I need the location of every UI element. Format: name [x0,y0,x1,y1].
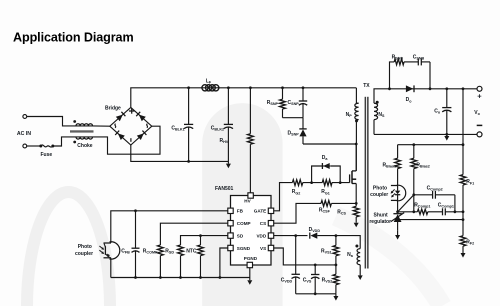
AC input terminal (top) [23,115,27,119]
R_CSF label [319,208,331,214]
wire AC top to choke [27,117,76,126]
capacitor C_BLK2 [224,86,233,161]
inductor L_F [202,85,219,91]
svg-text:TX: TX [363,83,370,89]
bridge ~ mark right [146,124,149,128]
ground arrow at R_F2 [461,246,466,258]
wire bridge top vertex to HV rail [131,88,356,108]
resistor R_Bias1 [395,145,401,186]
R_F1 label [466,179,474,185]
pin FB [228,208,244,214]
resistor R_G2 [292,180,302,186]
capacitor C_FB [132,209,140,278]
svg-text:VS: VS [260,246,266,251]
resistor R_G1 [322,180,332,186]
AC IN label [17,131,31,137]
wire VDD box bottom rail [296,293,336,295]
R_Bias1 label [383,162,396,168]
Photo coupler label (right) [370,186,388,199]
svg-text:PGND: PGND [244,256,258,261]
capacitor C_VDD [292,234,300,294]
diode D_SNP [299,118,306,144]
pin GATE [254,208,274,214]
wire bridge bottom vertex to negative rail [131,145,229,161]
resistor R_CSF [321,201,331,207]
R_SNP label [267,100,279,106]
wire fuse to choke bottom [53,137,76,146]
wire D_VDD to aux node [317,234,360,248]
Bridge label [105,106,121,112]
svg-text:Application Diagram: Application Diagram [13,31,134,45]
wire SD pin left [181,236,228,245]
resistor R_Bias2 [411,145,417,195]
wire photo transistor emitter to SGND rail [110,258,112,278]
Fuse label [41,152,53,158]
watermark: bottom-right swoosh [336,216,442,306]
bias line [398,143,463,146]
R_VS1 label [321,248,332,254]
svg-text:AC IN: AC IN [17,131,31,137]
svg-text:GATE: GATE [254,209,266,214]
R_G2 label [292,189,301,195]
bridge diode D2 (right-top edge) [136,112,146,121]
MOSFET Q1 [350,144,357,203]
watermark: center arch [202,103,282,306]
svg-text:Choke: Choke [77,143,93,149]
wire R_G1 to gate [332,181,350,184]
capacitor C_SNB [404,58,430,65]
wire GATE pin to gate line [274,183,293,211]
svg-text:Shunt: Shunt [374,213,388,219]
svg-text:HV: HV [244,199,251,204]
resistor R_COMP [158,245,164,279]
N_P label [346,112,353,118]
capacitor C_o [442,87,451,134]
bridge diode D3 (bottom-left edge) [115,131,125,140]
capacitor C_SNP [299,86,307,117]
secondary bottom rail [374,133,477,136]
Shunt regulator label [369,213,391,225]
svg-text:coupler: coupler [75,251,93,257]
pin COMP [228,221,251,227]
C_SNB label [413,54,425,60]
svg-text:VDD: VDD [256,234,266,239]
svg-text:Bridge: Bridge [105,106,121,112]
resistor R_VS2 [333,265,339,294]
svg-text:NTC: NTC [186,248,197,254]
pin HV [244,193,253,204]
FAN501 label [215,186,234,192]
resistor R_VS1 [333,236,339,265]
photo coupler U2 transistor side [99,242,119,259]
auxiliary winding N_a [355,245,360,265]
pin PGND [244,256,258,268]
output + terminal [477,86,482,91]
C_VDD label [281,277,293,283]
C_BLK2 label [211,125,224,131]
C_o label [434,108,441,114]
ground arrow at N_a [358,265,363,280]
shunt regulator U3 [391,213,404,231]
svg-text:FAN501: FAN501 [215,186,234,192]
wire FB pin to photo coupler [111,211,228,243]
output rectifier D_o [406,85,414,92]
resistor R_SNP [280,86,286,117]
svg-text:Photo: Photo [373,186,387,192]
Choke label [77,143,93,149]
bridge ~ mark left [114,124,117,128]
TX label [363,83,370,89]
ground arrow at R_VS2 [333,294,338,301]
wire SGND pin down [219,248,228,279]
R_G1 label [321,189,330,195]
V_o label [474,110,480,116]
svg-text:CS: CS [260,221,266,226]
pin CS [260,221,274,227]
ground arrow at C_o [444,134,449,140]
pin VS [260,245,274,251]
C_BLK1 label [171,125,184,131]
diode D_VDD [310,233,318,239]
N_a label [347,252,354,258]
feedback tap wire [462,87,465,146]
bridge diode D4 (bottom-right edge) [137,131,147,140]
watermark: bottom-left arc [27,192,110,306]
wire D_SNP to drain node [303,143,358,146]
svg-text:Photo: Photo [78,244,92,250]
fuse F1 [39,145,54,148]
Photo coupler label (left) [75,244,93,257]
choke L1 top winding [73,120,92,126]
R_Bias2 label [416,162,429,168]
wire snubber RC bottom [283,117,304,119]
comp lower line left [398,195,418,213]
L_F label [206,78,212,84]
choke L1 bottom winding [73,137,92,144]
svg-text:+: + [477,92,482,101]
ground arrow at R_CS [354,217,359,227]
bridge diode D1 (left-top edge) [116,112,126,121]
wire choke top to bridge left [93,125,110,127]
wire R_G2 to R_G1 [303,181,323,184]
pin SGND [228,245,251,251]
svg-text:SGND: SGND [237,246,251,251]
wire choke bottom to bridge right [93,126,161,154]
pin SD [228,233,244,239]
ground arrow at shunt [395,230,400,239]
capacitor C_VS [311,265,319,295]
C_Comp1 label [438,202,454,208]
NTC label [186,248,197,254]
+ mark [477,92,482,101]
capacitor C_BLK1 [184,86,193,162]
resistor R_SNB [394,59,404,65]
diode D_a [322,163,329,169]
resistor R_CS [353,202,359,217]
svg-text:COMP: COMP [237,221,251,226]
pin VDD [256,233,273,239]
svg-text:coupler: coupler [370,192,388,198]
D_SNP label [288,131,300,137]
R_COMP label [143,248,158,254]
resistor R_SD [178,245,184,279]
wire VS pin to divider [274,248,338,266]
choke core bar [70,130,94,132]
op-amp U1 FAN501 body [231,196,272,266]
resistor R_Comp1 [417,209,427,214]
wire COMP pin left [160,223,227,245]
- mark [477,124,483,126]
bridge - mark [130,138,132,142]
R_HV label [220,138,229,144]
wire CS pin to R_CSF [274,203,321,223]
primary ground arrow at C_BLK2 [226,161,231,168]
resistor R_HV [248,86,254,192]
capacitor C_Comp1 [428,208,463,215]
wire AC bottom to fuse [27,145,40,147]
D_a label [322,155,329,161]
D_o label [406,97,413,103]
C_FB label [121,248,130,254]
resistor R_F1 [460,145,466,214]
C_Comp2 branch [414,191,457,213]
R_F2 label [466,240,474,246]
output - terminal [477,132,482,137]
bridge + mark [129,108,134,113]
svg-text:FB: FB [237,209,244,214]
shunt ref line [398,219,463,221]
diode D_a loop [312,166,341,183]
svg-text:Fuse: Fuse [41,152,53,158]
C_SNP label [288,100,300,106]
C_VS label [303,277,312,283]
thermistor NTC [198,234,204,279]
R_Comp1 label [414,202,430,208]
photo coupler U2 LED side [391,185,406,201]
ground arrow at PGND [247,268,252,285]
svg-text:SD: SD [237,234,244,239]
N_S label [378,112,385,118]
bridge rectifier diamond [110,107,152,145]
secondary winding N_S [374,89,477,135]
resistor R_F2 [460,212,466,246]
R_CS label [337,209,346,215]
transformer TX core [365,97,369,269]
R_VS2 label [322,277,333,283]
wire VDD pin to D_VDD [274,235,308,237]
AC input terminal (bottom) [23,144,27,148]
R_SD label [165,248,174,254]
wire LED cathode to shunt node [396,200,399,213]
D_VDD label [309,227,321,233]
diagonal wire R_Bias2 to shunt node [398,195,414,212]
wire R_CSF to source node [331,202,356,204]
snubber R_SNB C_SNB branch [388,62,431,90]
C_Comp2 label [427,185,443,191]
comp node A [412,193,415,196]
SGND rail [111,277,250,279]
R_SNB label [392,54,404,60]
primary winding N_P [355,88,359,171]
svg-text:regulator: regulator [369,219,391,225]
